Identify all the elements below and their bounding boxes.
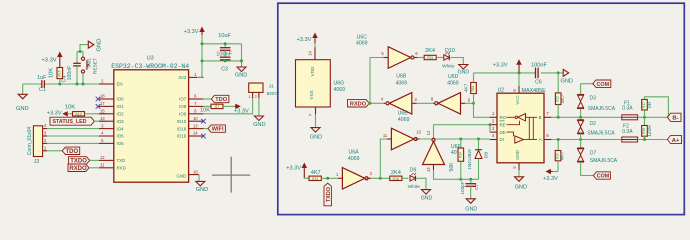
- svg-text:4: 4: [101, 131, 104, 136]
- wire: [369, 102, 383, 104]
- svg-text:10uF: 10uF: [218, 33, 231, 39]
- junction: [557, 71, 560, 74]
- svg-text:10K: 10K: [65, 105, 75, 111]
- wire: [450, 58, 463, 65]
- svg-text:56K: 56K: [449, 162, 455, 172]
- svg-text:100nF: 100nF: [531, 62, 547, 68]
- svg-text:R19: R19: [556, 153, 560, 159]
- svg-text:RO: RO: [500, 115, 507, 120]
- wire: [434, 123, 492, 132]
- wire: [198, 175, 200, 182]
- svg-text:100nF: 100nF: [216, 51, 232, 57]
- svg-text:R18: R18: [642, 128, 646, 134]
- svg-text:GND: GND: [97, 39, 103, 52]
- svg-text:GND: GND: [16, 106, 29, 112]
- LED D9: [408, 167, 421, 190]
- wire: [417, 102, 434, 104]
- ground: [560, 69, 572, 84]
- svg-text:IO0: IO0: [117, 97, 125, 102]
- IC U2 MAX485E: [497, 88, 546, 163]
- svg-text:+3.3V: +3.3V: [184, 29, 199, 35]
- svg-text:U6C: U6C: [357, 34, 368, 40]
- ground: [16, 84, 29, 112]
- svg-text:+3.3V: +3.3V: [543, 176, 558, 182]
- pin 2: [255, 92, 259, 99]
- svg-text:D9: D9: [409, 167, 416, 173]
- wire: [541, 72, 564, 74]
- ground: [515, 177, 528, 191]
- svg-text:8: 8: [512, 89, 517, 92]
- junction: [643, 138, 646, 141]
- pin 14 IO19: [177, 131, 204, 139]
- svg-text:10: 10: [416, 129, 421, 134]
- ground: [421, 190, 433, 202]
- label B-: [667, 113, 681, 121]
- svg-text:3: 3: [414, 97, 417, 102]
- pin 4: [43, 123, 48, 128]
- wire: [47, 135, 99, 137]
- svg-text:+3.3V: +3.3V: [297, 37, 312, 43]
- svg-text:11: 11: [100, 163, 105, 168]
- connector J1 BOOT: [249, 83, 280, 96]
- svg-text:U2: U2: [498, 88, 505, 94]
- TVS D3 SMAJ6.5CA: [577, 84, 616, 118]
- svg-text:IO5: IO5: [117, 134, 125, 139]
- svg-text:10K: 10K: [200, 108, 210, 114]
- fuse F1 0.3A: [622, 101, 638, 120]
- svg-text:4069: 4069: [348, 156, 360, 162]
- svg-text:A: A: [539, 137, 542, 142]
- svg-text:4069: 4069: [396, 81, 408, 87]
- pin 1 RO: [490, 111, 507, 120]
- wire: [465, 102, 473, 104]
- power +3.3V: [47, 110, 67, 116]
- junction: [326, 177, 329, 180]
- svg-text:GND: GND: [421, 195, 433, 201]
- label COM: [581, 80, 611, 88]
- svg-text:2: 2: [370, 171, 373, 176]
- svg-text:7: 7: [546, 111, 549, 116]
- wire: [474, 103, 490, 117]
- no-connect IO0: [96, 97, 101, 102]
- wire: [47, 150, 63, 152]
- label TDO: [211, 95, 229, 103]
- pin 8 VCC: [512, 86, 519, 93]
- svg-text:MAX485E: MAX485E: [521, 88, 546, 94]
- resistor R17 0R: [642, 100, 653, 118]
- svg-text:EN: EN: [117, 82, 123, 87]
- wire: [258, 98, 260, 116]
- junction: [240, 59, 243, 62]
- wire: [551, 116, 621, 118]
- svg-text:J1: J1: [269, 84, 274, 90]
- junction: [76, 83, 79, 86]
- svg-text:1uF: 1uF: [37, 75, 47, 81]
- svg-text:A+: A+: [672, 138, 680, 144]
- svg-text:IO3: IO3: [117, 119, 125, 124]
- capacitor C7 100pF: [460, 179, 479, 199]
- svg-text:13: 13: [426, 167, 431, 172]
- pin 5 IO6: [99, 138, 124, 146]
- connector J3: [27, 126, 43, 165]
- wire: [638, 139, 668, 141]
- capacitor C1: [37, 75, 47, 93]
- wire: [203, 98, 211, 100]
- svg-text:D3: D3: [590, 96, 597, 102]
- svg-text:Conn_01x04: Conn_01x04: [27, 127, 33, 156]
- ground: [196, 181, 208, 193]
- TVS D7 SMAJ6.5CA: [577, 140, 618, 176]
- svg-text:D10: D10: [445, 48, 455, 54]
- svg-text:U6A: U6A: [349, 150, 360, 156]
- svg-text:IO4: IO4: [117, 126, 125, 131]
- junction: [201, 42, 204, 62]
- svg-text:U6E: U6E: [398, 110, 409, 116]
- svg-text:R17: R17: [642, 102, 646, 108]
- svg-text:4K7: 4K7: [560, 94, 566, 103]
- svg-text:GND: GND: [458, 70, 470, 76]
- pin 10 IO10: [177, 116, 204, 124]
- svg-text:B: B: [539, 115, 542, 120]
- svg-text:COM: COM: [597, 174, 610, 180]
- inverter U6F 4069: [423, 130, 461, 172]
- svg-text:40: 40: [451, 150, 457, 156]
- svg-text:White: White: [408, 184, 421, 190]
- power +3.3V: [543, 170, 558, 183]
- svg-text:+3.3V: +3.3V: [41, 57, 56, 63]
- ground: [88, 39, 102, 52]
- pin 1: [43, 145, 48, 150]
- power +3.3V: [286, 164, 306, 179]
- ground: [465, 199, 477, 213]
- wire: [197, 35, 202, 77]
- pin 13 IO18: [177, 123, 204, 131]
- resistor R16 2K4: [390, 170, 402, 181]
- svg-text:U6B: U6B: [396, 74, 407, 80]
- inverter U6D 4069: [431, 74, 471, 114]
- svg-text:4K7: 4K7: [463, 83, 469, 92]
- svg-text:3: 3: [44, 131, 47, 136]
- resistor R13 4K7: [309, 170, 321, 181]
- svg-text:IO1: IO1: [117, 104, 125, 109]
- svg-text:RXDO: RXDO: [350, 101, 367, 107]
- power +3.3V: [493, 60, 521, 73]
- pin 11 RXD: [99, 163, 126, 171]
- resistor R19 4K7 pullup: [553, 140, 566, 172]
- svg-text:10: 10: [193, 116, 198, 121]
- pin 15 IO2: [99, 109, 124, 117]
- svg-text:TXD: TXD: [117, 158, 126, 163]
- svg-text:GND: GND: [560, 78, 572, 84]
- pin 12 TXD: [99, 155, 125, 163]
- svg-text:12: 12: [426, 130, 431, 135]
- svg-text:R12: R12: [556, 96, 560, 102]
- junction: [459, 138, 480, 141]
- label RXDO: [68, 164, 99, 172]
- junction: [58, 83, 61, 86]
- svg-text:15: 15: [100, 109, 105, 114]
- svg-text:VCC: VCC: [515, 95, 520, 104]
- wire: [371, 177, 390, 179]
- ground: [458, 65, 470, 76]
- svg-text:GND: GND: [465, 206, 477, 212]
- svg-text:R16: R16: [393, 177, 399, 181]
- power +3.3V: [184, 28, 204, 36]
- wire: [47, 142, 99, 144]
- pin 13 IO3: [99, 116, 124, 124]
- svg-text:1: 1: [248, 94, 251, 99]
- svg-text:2: 2: [255, 94, 258, 99]
- svg-text:2K4: 2K4: [425, 48, 435, 54]
- label COM: [593, 172, 610, 180]
- svg-text:11: 11: [383, 133, 388, 138]
- pin 1 3V3: [178, 72, 203, 80]
- junction: [557, 116, 582, 119]
- wire: [417, 178, 426, 189]
- svg-text:SMAJ6.5CA: SMAJ6.5CA: [588, 106, 616, 112]
- svg-text:4069: 4069: [334, 87, 346, 93]
- wire: [77, 45, 88, 53]
- label A+: [667, 135, 681, 143]
- svg-text:IO2: IO2: [117, 112, 125, 117]
- svg-text:TXDO: TXDO: [326, 187, 332, 202]
- svg-text:120R: 120R: [647, 125, 653, 137]
- resistor R12 4K7 pulldown: [555, 73, 566, 117]
- svg-text:SMAJ6.5CA: SMAJ6.5CA: [590, 158, 618, 164]
- fuse F2 0.3A: [622, 124, 638, 143]
- cursor crosshair: [212, 157, 250, 193]
- svg-text:16: 16: [193, 169, 198, 174]
- svg-text:2: 2: [101, 79, 104, 84]
- svg-text:10K: 10K: [49, 68, 55, 78]
- svg-text:RESET: RESET: [92, 58, 98, 74]
- svg-text:17: 17: [100, 101, 105, 106]
- svg-text:D8: D8: [483, 152, 489, 158]
- wire: [645, 97, 669, 118]
- svg-text:R15: R15: [427, 56, 433, 60]
- inverter U6C 4069: [356, 34, 418, 68]
- svg-text:COM: COM: [597, 82, 610, 88]
- svg-text:SW1: SW1: [87, 58, 92, 68]
- svg-text:DE: DE: [500, 130, 506, 135]
- svg-text:B-: B-: [672, 116, 678, 122]
- svg-text:3: 3: [101, 123, 104, 128]
- wire: [518, 73, 520, 86]
- svg-text:GND: GND: [176, 173, 186, 178]
- svg-text:C3: C3: [221, 66, 228, 72]
- resistor R18 120R: [642, 117, 653, 139]
- svg-text:2K4: 2K4: [391, 170, 401, 176]
- svg-text:4: 4: [44, 123, 47, 128]
- wire: [420, 138, 490, 140]
- capacitor C4: [61, 52, 81, 85]
- wire: [638, 116, 668, 118]
- svg-text:IO9: IO9: [179, 112, 187, 117]
- pin 6 IO7: [179, 94, 203, 102]
- capacitor C3 100nF: [216, 50, 232, 72]
- inverter U6A 4069: [336, 150, 373, 190]
- wire: [304, 177, 309, 179]
- svg-text:4K7: 4K7: [311, 170, 321, 176]
- svg-text:D2: D2: [590, 121, 597, 127]
- svg-text:14: 14: [307, 50, 312, 55]
- svg-text:TDO: TDO: [65, 149, 78, 155]
- svg-text:6: 6: [546, 133, 549, 138]
- svg-text:SMAJ6.5CA: SMAJ6.5CA: [587, 131, 615, 137]
- svg-text:J3: J3: [34, 159, 40, 165]
- svg-text:14: 14: [193, 131, 198, 136]
- svg-text:IO18: IO18: [177, 126, 187, 131]
- ground: [253, 116, 265, 128]
- svg-text:IO10: IO10: [177, 119, 187, 124]
- svg-text:+3.3V: +3.3V: [493, 63, 508, 69]
- junction: [224, 42, 227, 62]
- inverter U6E 4069: [383, 110, 422, 149]
- svg-text:9: 9: [468, 98, 471, 103]
- svg-text:100nF: 100nF: [67, 66, 73, 81]
- svg-text:R10: R10: [75, 112, 81, 116]
- svg-text:GND: GND: [515, 150, 520, 160]
- wire: [241, 44, 243, 67]
- svg-text:GND: GND: [310, 135, 322, 141]
- wire: [551, 139, 621, 141]
- svg-text:D7: D7: [590, 151, 597, 157]
- pin 2 RE: [490, 118, 506, 127]
- svg-text:1N4148W: 1N4148W: [467, 149, 472, 170]
- svg-text:4069: 4069: [356, 40, 368, 46]
- resistor R11 4K7: [463, 73, 476, 103]
- svg-text:7: 7: [308, 113, 313, 116]
- wire: [315, 114, 317, 127]
- wire: [202, 60, 242, 62]
- wire: [433, 125, 435, 138]
- svg-text:VDD: VDD: [310, 66, 315, 76]
- svg-text:IO8: IO8: [179, 104, 187, 109]
- svg-text:R13: R13: [312, 177, 318, 181]
- junction: [472, 102, 475, 105]
- svg-text:7: 7: [194, 101, 197, 106]
- no-connect IO10: [201, 119, 206, 124]
- pin 6 A: [539, 133, 552, 142]
- svg-text:U6G: U6G: [334, 81, 345, 87]
- svg-text:18: 18: [100, 94, 105, 99]
- svg-text:4069: 4069: [398, 117, 410, 123]
- svg-text:2: 2: [44, 138, 47, 143]
- resistor R16: [49, 68, 63, 85]
- switch SW1 RESET: [81, 52, 98, 85]
- pin 5 GND: [512, 163, 519, 170]
- resistor R14 56K: [449, 139, 464, 179]
- wire: [434, 170, 479, 179]
- junction: [379, 177, 382, 180]
- label TXDO: [69, 157, 99, 165]
- power +3.3V: [234, 104, 249, 114]
- wire: [370, 58, 384, 104]
- svg-text:TDO: TDO: [215, 97, 227, 103]
- wire: [203, 128, 208, 130]
- junction: [518, 71, 521, 74]
- power +3.3V: [41, 53, 61, 68]
- wire: [418, 57, 425, 59]
- pin 8 IO9: [179, 109, 203, 117]
- LED D10: [442, 48, 455, 70]
- svg-text:1: 1: [44, 145, 47, 150]
- svg-text:1: 1: [336, 172, 339, 177]
- svg-text:6: 6: [194, 94, 197, 99]
- pin 3: [43, 131, 48, 136]
- label TDO: [62, 147, 79, 155]
- svg-text:GND: GND: [235, 72, 247, 78]
- junction: [557, 138, 582, 141]
- svg-text:R7: R7: [215, 105, 219, 109]
- wire: [321, 177, 338, 179]
- svg-text:5: 5: [381, 51, 384, 56]
- svg-text:GND: GND: [515, 185, 527, 191]
- svg-text:3: 3: [492, 126, 495, 131]
- svg-text:R14: R14: [458, 152, 462, 158]
- wire: [45, 83, 106, 85]
- pin 2 EN: [99, 79, 123, 87]
- wire: [518, 170, 520, 177]
- svg-text:13: 13: [193, 123, 198, 128]
- inverter U6B 4069: [381, 74, 418, 114]
- svg-text:12: 12: [100, 155, 105, 160]
- wire: [203, 105, 211, 107]
- svg-text:IO6: IO6: [117, 141, 125, 146]
- junction: [82, 83, 85, 86]
- wire: [402, 177, 409, 179]
- svg-text:4K7: 4K7: [559, 151, 565, 160]
- pin 7 IO8: [179, 101, 203, 109]
- pin 2: [43, 138, 48, 143]
- svg-text:VSS: VSS: [309, 90, 314, 99]
- svg-text:White: White: [442, 64, 455, 70]
- svg-text:4: 4: [381, 97, 384, 102]
- ground: [235, 67, 247, 78]
- pin 4 IO5: [99, 131, 124, 139]
- label WIFI: [208, 125, 226, 133]
- svg-text:0.3A: 0.3A: [622, 106, 633, 112]
- svg-text:IO7: IO7: [179, 97, 187, 102]
- svg-text:+3.3V: +3.3V: [286, 165, 301, 171]
- pin 3 IO4: [99, 123, 124, 131]
- IC U6G 4069 power unit: [296, 43, 346, 116]
- svg-text:4069: 4069: [447, 81, 459, 87]
- junction: [459, 178, 472, 181]
- svg-text:RE: RE: [500, 122, 506, 127]
- svg-text:GND: GND: [196, 187, 208, 193]
- svg-text:0R: 0R: [647, 101, 653, 108]
- svg-text:C1: C1: [39, 87, 46, 93]
- wire: [223, 105, 235, 107]
- pin 4 DI: [490, 133, 504, 142]
- svg-text:U3: U3: [147, 56, 154, 62]
- wire: [380, 139, 387, 178]
- pin 16 GND: [176, 169, 199, 178]
- TVS D2 SMAJ6.5CA: [577, 117, 615, 139]
- wire: [436, 57, 444, 59]
- label STATUS_LED: [50, 117, 106, 125]
- svg-text:RXDO: RXDO: [69, 166, 87, 172]
- IC U3 ESP32-C3-WROOM-02-N4: [111, 56, 189, 183]
- svg-text:8: 8: [194, 109, 197, 114]
- ground: [310, 128, 322, 141]
- pin 17 IO1: [99, 101, 124, 109]
- svg-text:1: 1: [492, 111, 495, 116]
- wire: [47, 128, 99, 130]
- svg-text:C7: C7: [474, 184, 479, 190]
- svg-text:DI: DI: [500, 137, 504, 142]
